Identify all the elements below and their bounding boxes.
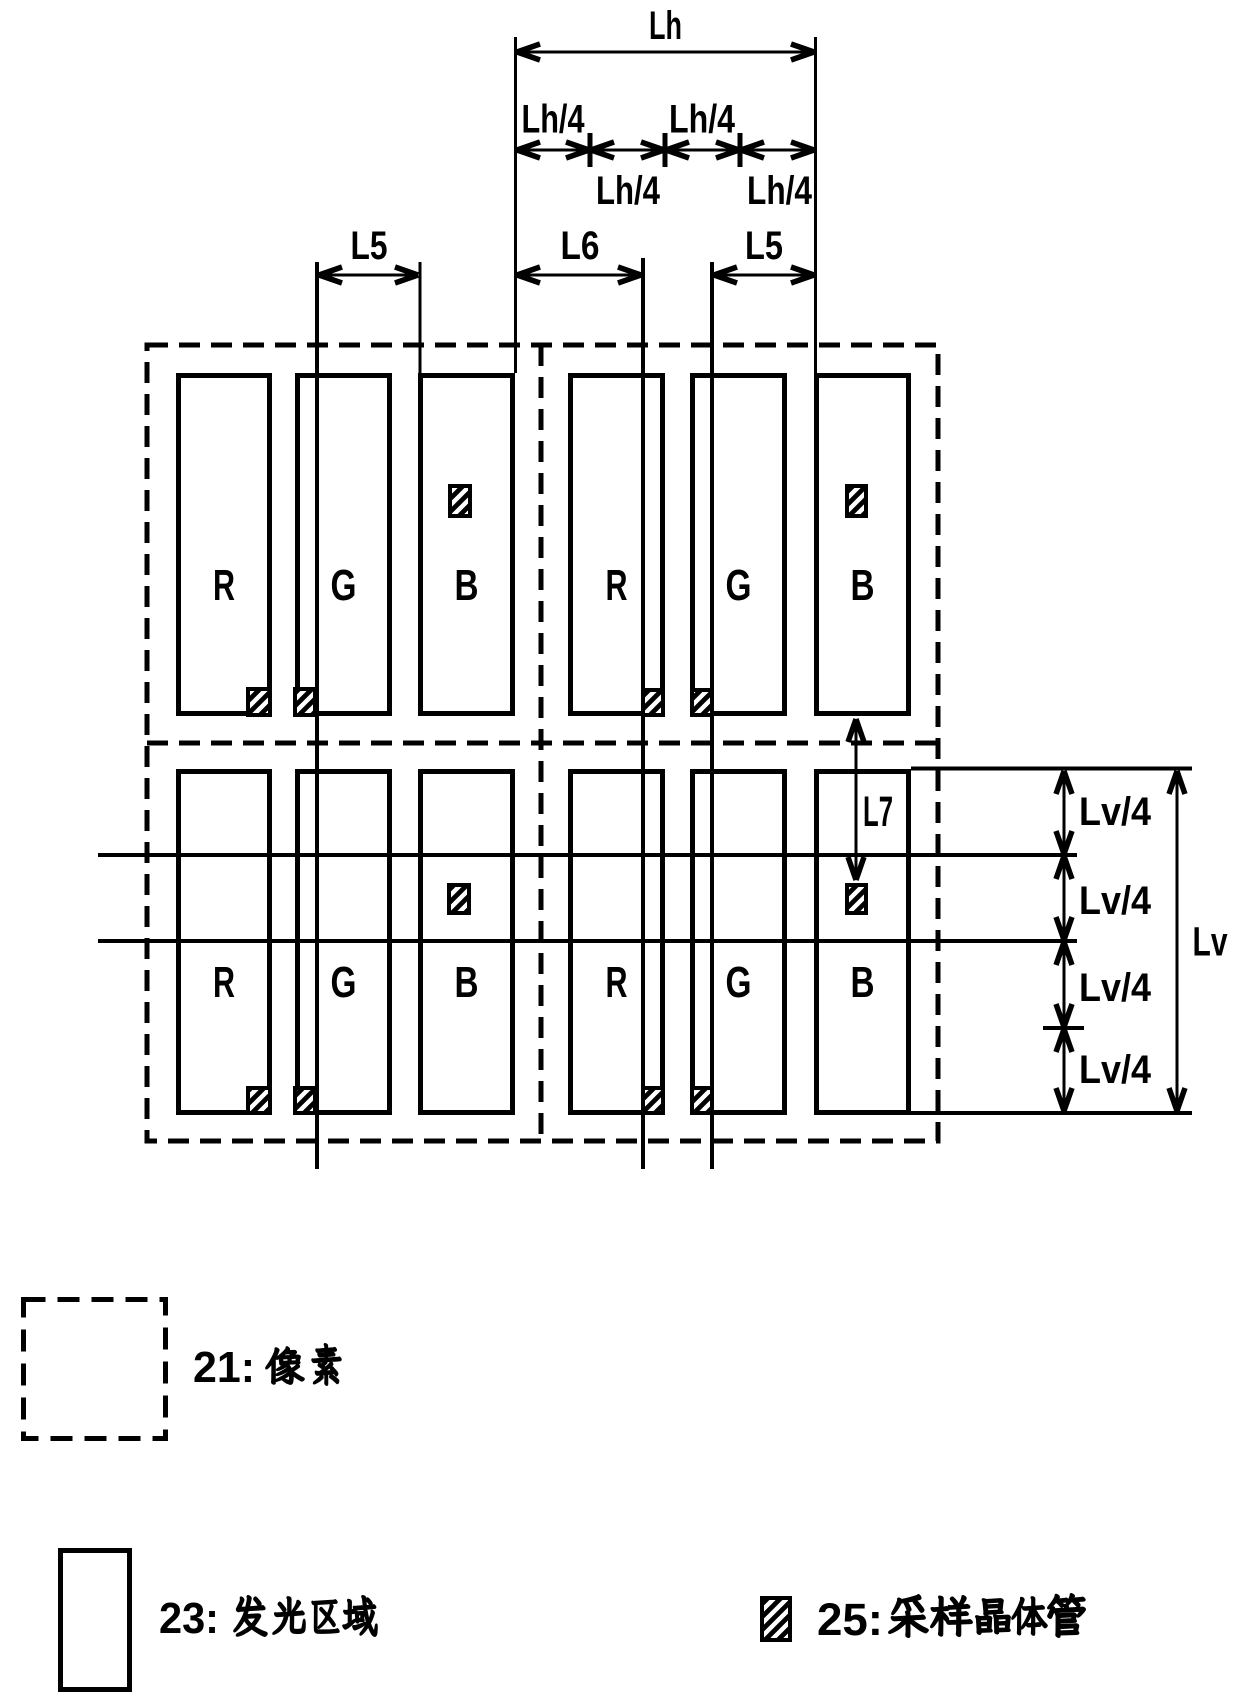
svg-text:R: R	[213, 561, 235, 610]
svg-text:R: R	[213, 958, 235, 1007]
svg-text:R: R	[606, 561, 628, 610]
svg-text:L5: L5	[351, 224, 388, 268]
light-emitting area 23 (G) row1 col 1	[298, 376, 390, 714]
light-emitting area 23 (R) row2 col 1	[179, 772, 270, 1113]
svg-text:Lh/4: Lh/4	[522, 98, 586, 142]
extension line row2 top (y=768)	[911, 767, 1192, 771]
pixel 21 dashed divider vertical (x=541)	[539, 345, 544, 1141]
svg-text:Lv/4: Lv/4	[1079, 1048, 1152, 1092]
tick mark Lh/4 at x=740	[738, 133, 743, 167]
legend light-emitting area 23 box	[61, 1551, 130, 1690]
sampling transistor 25 in B row1 group1	[450, 486, 470, 516]
svg-text:21:: 21:	[193, 1343, 255, 1392]
extension line row2 bottom (y=1113)	[911, 1111, 1192, 1115]
svg-text:B: B	[455, 958, 479, 1007]
svg-text:Lh/4: Lh/4	[596, 169, 661, 213]
sampling transistor 25 in G row2 group1	[295, 1088, 315, 1113]
svg-text:R: R	[606, 958, 628, 1007]
legend text 像素 (pixel)	[266, 1347, 304, 1384]
svg-text:Lv/4: Lv/4	[1079, 879, 1152, 923]
sampling transistor 25 in R row1 group1	[248, 689, 270, 715]
tick mark Lv/4 at y=1028	[1043, 1026, 1084, 1030]
svg-text:Lh/4: Lh/4	[747, 169, 813, 213]
sampling transistor 25 in R row1 group2	[643, 690, 663, 715]
light-emitting area 23 (B) row2 col 2	[817, 772, 909, 1113]
dimension extension line Lh right (x=815)	[814, 37, 817, 373]
svg-text:Lv/4: Lv/4	[1079, 966, 1152, 1010]
svg-text:G: G	[726, 561, 752, 610]
sampling transistor 25 in B row2 group2	[847, 885, 866, 913]
svg-text:B: B	[455, 561, 479, 610]
svg-text:L6: L6	[561, 224, 600, 268]
svg-text:G: G	[726, 958, 752, 1007]
sampling transistor 25 in G row1 group1	[295, 689, 315, 715]
legend sampling transistor 25 hatched box	[762, 1598, 790, 1640]
tick mark Lh/4 at x=665	[663, 133, 668, 167]
light-emitting area 23 (B) row2 col 1	[421, 772, 513, 1113]
dimension arrow Lh	[518, 51, 813, 54]
sampling transistor 25 in R row2 group1	[248, 1088, 270, 1113]
svg-text:G: G	[331, 561, 357, 610]
svg-text:23:: 23:	[159, 1594, 219, 1643]
dimension arrow L7	[855, 720, 858, 879]
light-emitting area 23 (B) row1 col 1	[421, 376, 513, 714]
sampling transistor 25 in G row1 group2	[692, 690, 712, 715]
light-emitting area 23 (G) row1 col 2	[693, 376, 785, 714]
svg-text:L7: L7	[863, 788, 893, 836]
light-emitting area 23 (R) row2 col 2	[571, 772, 663, 1113]
signal line through G pixels column 2 (x=712)	[710, 262, 714, 1169]
svg-text:Lv/4: Lv/4	[1079, 790, 1152, 834]
light-emitting area 23 (R) row1 col 2	[571, 376, 663, 714]
dimension extension line at x=420	[419, 262, 422, 373]
pixel 21 outer dashed boundary	[147, 345, 938, 1141]
legend pixel 21 dashed box	[24, 1300, 166, 1439]
legend text 采样晶体管 (sampling transistor)	[889, 1595, 928, 1637]
tick mark Lh/4 at x=590	[588, 133, 593, 167]
svg-text:Lv: Lv	[1193, 919, 1228, 965]
svg-text:B: B	[851, 958, 875, 1007]
dimension arrows Lv/4 (four spans)	[1063, 772, 1066, 853]
light-emitting area 23 (G) row2 col 1	[298, 772, 390, 1113]
dimension arrow L5 right	[715, 274, 813, 277]
svg-text:G: G	[331, 958, 357, 1007]
light-emitting area 23 (R) row1 col 1	[179, 376, 270, 714]
signal line through G pixels column 1 (x=317)	[315, 262, 319, 1169]
svg-text:L5: L5	[745, 224, 783, 268]
sampling transistor 25 in B row2 group1	[449, 885, 469, 913]
dimension arrows Lh/4 (four quarter spans)	[518, 149, 588, 152]
scan line 2 (y=941)	[98, 939, 1077, 943]
dimension arrow L5 left	[320, 274, 417, 277]
pixel 21 dashed divider horizontal (y=743)	[147, 741, 938, 746]
svg-text:Lh: Lh	[649, 4, 682, 48]
light-emitting area 23 (B) row1 col 2	[817, 376, 909, 714]
svg-text:25:: 25:	[817, 1594, 883, 1645]
sampling transistor 25 in G row2 group2	[692, 1088, 712, 1113]
legend text 发光区域 (light emitting area)	[234, 1596, 267, 1636]
scan line 1 (y=855)	[98, 853, 1077, 857]
dimension extension line Lh left (x=515)	[514, 37, 517, 373]
dimension arrow L6	[518, 274, 640, 277]
dimension arrow Lv	[1176, 772, 1179, 1110]
light-emitting area 23 (G) row2 col 2	[693, 772, 785, 1113]
svg-text:Lh/4: Lh/4	[669, 98, 736, 142]
signal line through R pixel column 2 (x=643)	[641, 258, 645, 1169]
sampling transistor 25 in R row2 group2	[643, 1088, 663, 1113]
sampling transistor 25 in B row1 group2	[847, 486, 866, 516]
svg-text:B: B	[851, 561, 875, 610]
